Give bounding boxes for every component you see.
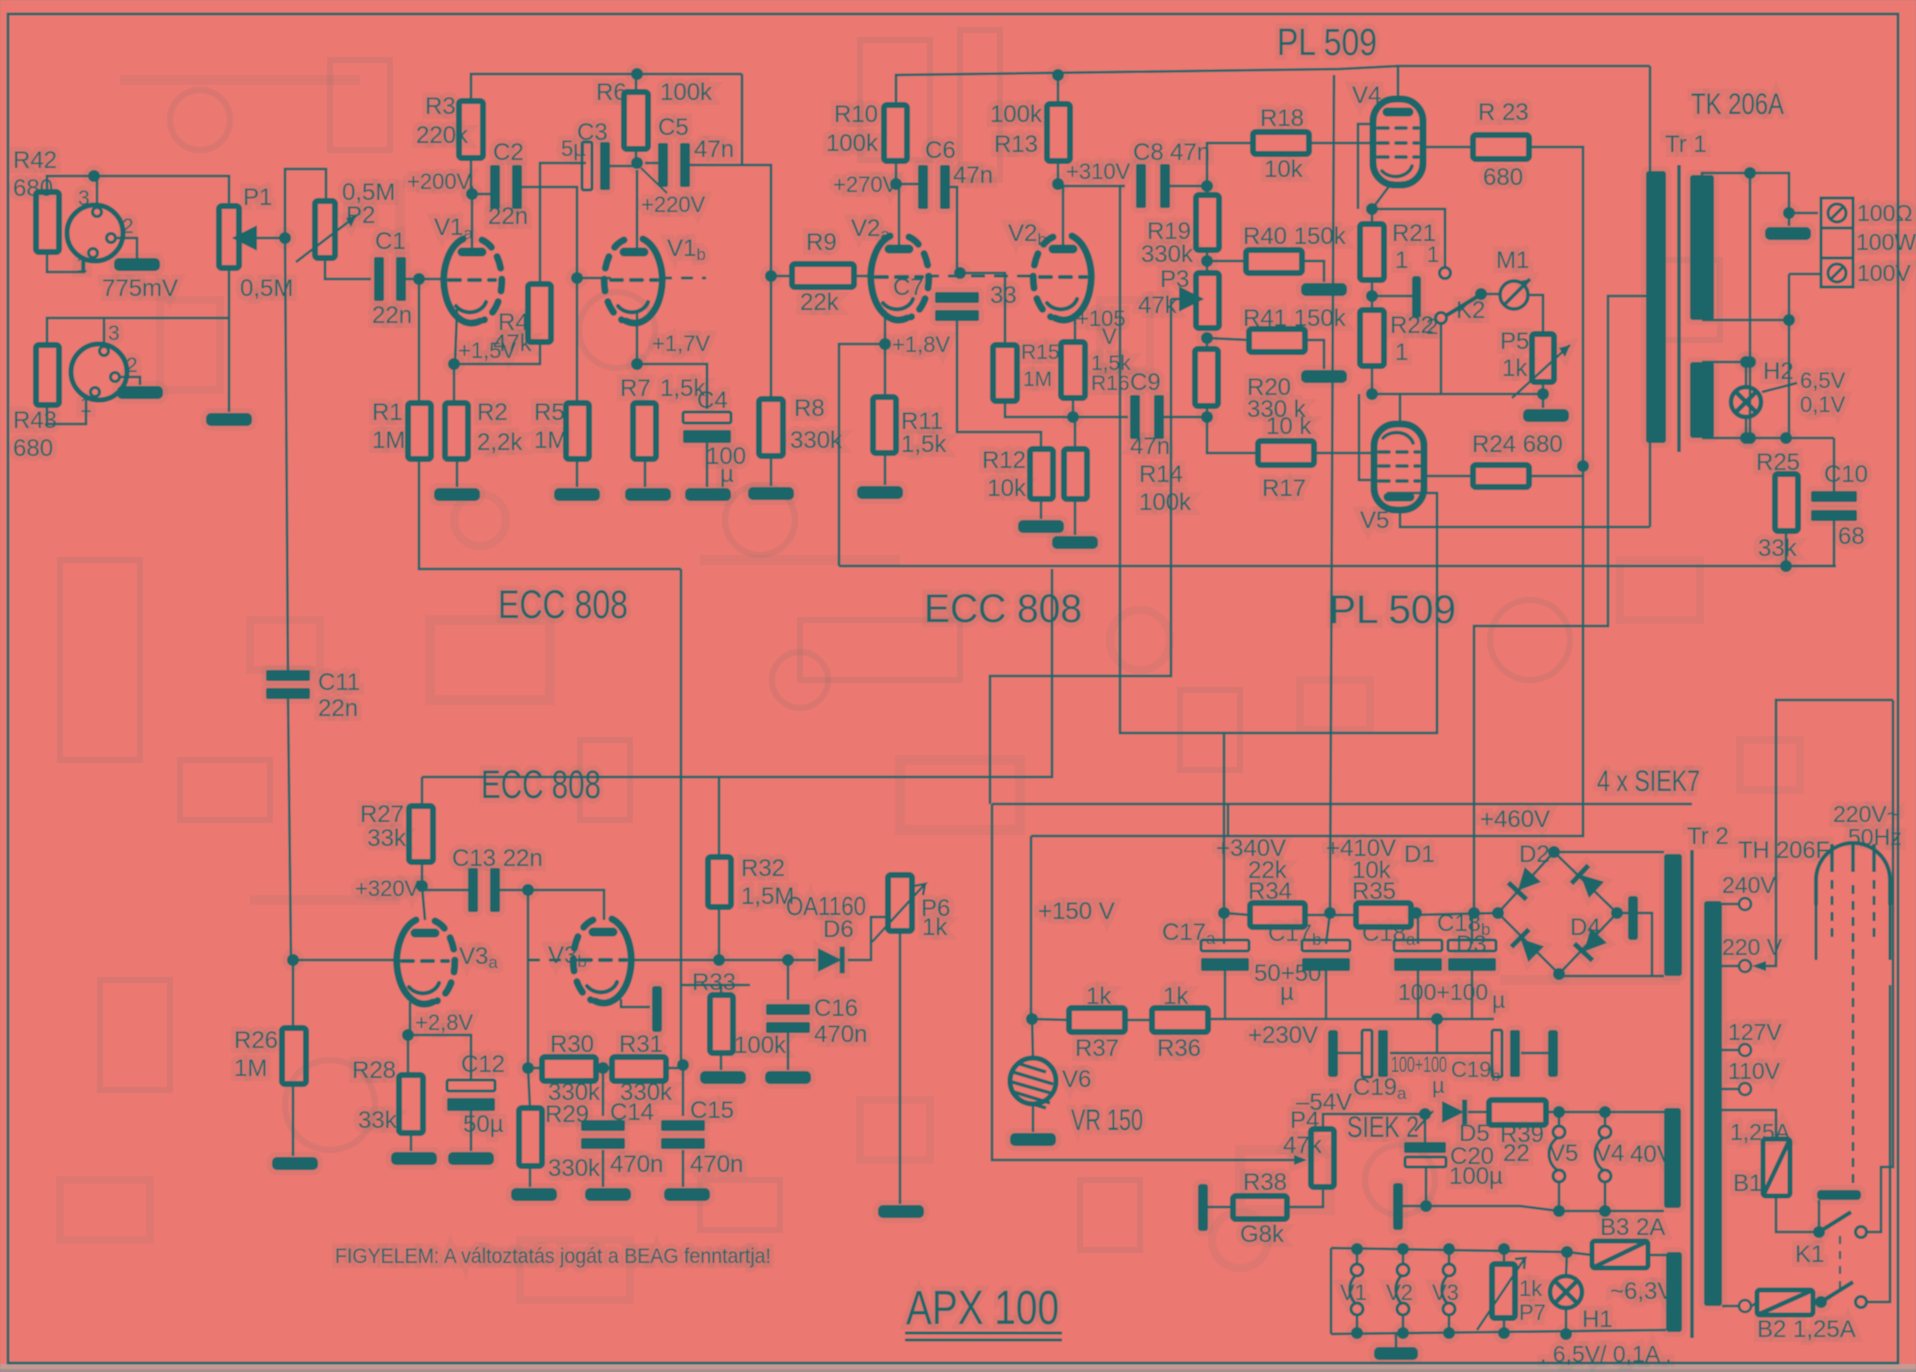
- resistor R22: [1360, 310, 1384, 366]
- junction D6 node: [782, 954, 794, 966]
- svg-text:+310V: +310V: [1066, 159, 1131, 184]
- wire C19 mid riser: [1436, 1019, 1439, 1053]
- ground R5: [554, 488, 600, 501]
- wire XLR1 pin2 to ground: [116, 238, 137, 258]
- wire +230V line: [1208, 1018, 1494, 1021]
- wire C8 node to R19: [1206, 186, 1209, 195]
- svg-text:+2,8V: +2,8V: [415, 1010, 473, 1035]
- junction +460V node: [1468, 907, 1480, 919]
- resistor R1: [408, 403, 431, 459]
- svg-text:µ: µ: [1280, 979, 1294, 1006]
- wire R34-R35 link: [1305, 914, 1356, 917]
- svg-text:+230V: +230V: [1248, 1022, 1318, 1049]
- wire C3 to +220V node: [606, 165, 637, 168]
- wire primary top: [1650, 66, 1656, 171]
- wire R21 bottom: [1371, 280, 1374, 310]
- junction +310V node: [1052, 178, 1064, 190]
- wire H1 bottom: [1565, 1308, 1568, 1336]
- wire C14 bottom to ground: [602, 1150, 605, 1187]
- wire B1 top: [1722, 1110, 1776, 1139]
- wire R41 right to ground: [1305, 340, 1324, 369]
- wire +410V riser: [1330, 75, 1334, 913]
- wire R15 bottom: [1005, 401, 1128, 417]
- junction P7 bottom: [1498, 1327, 1510, 1339]
- resistor R17: [1258, 441, 1314, 465]
- svg-text:22k: 22k: [800, 289, 840, 316]
- resistor R16: [1061, 342, 1085, 398]
- wire R40 right to ground: [1302, 261, 1324, 282]
- wire V4 cathode: [1372, 185, 1390, 209]
- wire C10 top: [1833, 438, 1836, 495]
- junction +340V node: [1218, 907, 1230, 919]
- wire V6 top: [1032, 1019, 1033, 1058]
- resistor R32: [708, 857, 731, 907]
- wire C17b bottom: [1325, 966, 1328, 1019]
- ground R33: [700, 1071, 746, 1084]
- wire P3 wiper line: [990, 299, 1171, 804]
- ground C12: [448, 1152, 494, 1165]
- pentode V5: [1374, 424, 1424, 510]
- svg-text:R2: R2: [477, 399, 508, 426]
- wire C15 riser: [682, 1068, 685, 1116]
- svg-text:D3: D3: [1456, 931, 1487, 958]
- svg-text:C11: C11: [318, 669, 360, 696]
- diode D2: [1570, 864, 1605, 899]
- wire V2a cathode: [884, 310, 887, 344]
- wire -54V node: [1323, 1114, 1425, 1129]
- wire +200V to C2: [472, 187, 492, 194]
- junction C20 D5 node: [1419, 1108, 1431, 1120]
- wire R43 top to shield bus: [47, 318, 229, 345]
- svg-text:V3: V3: [1432, 1280, 1459, 1305]
- svg-text:R31: R31: [619, 1031, 663, 1058]
- potentiometer P5: [1532, 334, 1554, 382]
- heater V2: [1396, 1264, 1409, 1315]
- potentiometer P1: [219, 206, 239, 268]
- resistor R19: [1196, 195, 1219, 250]
- junction heater V3 bottom: [1443, 1327, 1455, 1339]
- svg-text:100k: 100k: [660, 79, 713, 106]
- chassis bar C19 right: [1548, 1030, 1558, 1077]
- svg-text:R43: R43: [13, 407, 57, 434]
- wire R9 left: [771, 275, 792, 278]
- svg-text:R38: R38: [1243, 1169, 1287, 1196]
- svg-text:D2: D2: [1519, 841, 1550, 868]
- resistor R36: [1152, 1008, 1208, 1032]
- resistor R15: [993, 345, 1017, 401]
- svg-text:C6: C6: [925, 137, 956, 164]
- wire V3b cathode: [621, 999, 650, 1007]
- XLR connector input 2: [71, 344, 127, 400]
- junction heater V2 top: [1397, 1243, 1409, 1255]
- P6 variable arrow: [872, 884, 925, 942]
- svg-text:330k: 330k: [620, 1079, 673, 1106]
- junction divider right node: [677, 1059, 689, 1071]
- resistor R34: [1250, 903, 1305, 927]
- wire R10 bottom to +270V: [895, 161, 898, 184]
- wire H2 pointer: [1762, 383, 1797, 392]
- wire C17a riser: [1223, 913, 1226, 944]
- svg-text:50µ: 50µ: [463, 1111, 504, 1138]
- svg-text:0,1V: 0,1V: [1800, 392, 1846, 417]
- resistor R5: [566, 403, 589, 459]
- terminal 110V: [1739, 1083, 1751, 1095]
- svg-text:VR 150: VR 150: [1071, 1104, 1143, 1137]
- wire P2 bottom to C1: [325, 258, 371, 279]
- plug chassis bar: [1817, 1190, 1861, 1200]
- wire R12 bottom to ground: [1040, 499, 1043, 519]
- svg-text:330k: 330k: [790, 427, 843, 454]
- svg-text:+220V: +220V: [641, 192, 706, 217]
- svg-text:68: 68: [1838, 523, 1865, 550]
- svg-text:1k: 1k: [922, 914, 948, 941]
- resistor R38: [1233, 1196, 1287, 1219]
- wire P6 bottom to ground: [899, 931, 902, 1204]
- wire plug bar to K1: [1818, 1200, 1821, 1232]
- junction heater V3 top: [1443, 1243, 1455, 1255]
- heater V3: [1442, 1264, 1455, 1315]
- junction B3 left node: [1561, 1246, 1573, 1258]
- voltage regulator V6 VR150: [1010, 1058, 1056, 1108]
- svg-text:+1,8V: +1,8V: [892, 332, 950, 357]
- junction +2,8V node: [402, 1029, 414, 1041]
- heater V4: [1595, 1126, 1611, 1182]
- wire output common drop: [1749, 173, 1752, 438]
- wire +220V to C5: [645, 162, 661, 165]
- switch K1 upper lever: [1819, 1212, 1851, 1232]
- junction R6 bus node: [631, 68, 643, 80]
- junction +320V node: [416, 880, 428, 892]
- ground R2: [434, 488, 480, 501]
- junction divider mid node: [597, 1062, 609, 1074]
- wire divider left to R29: [528, 1068, 530, 1108]
- wire H2 bottom: [1745, 417, 1748, 438]
- junction heater V4 top: [1599, 1106, 1611, 1118]
- wire R17 right to V5 grid: [1314, 452, 1376, 455]
- junction C8 node: [1201, 180, 1213, 192]
- resistor R29: [519, 1108, 542, 1166]
- resistor R2: [445, 403, 468, 459]
- wire R32 riser: [718, 777, 721, 857]
- svg-text:ECC 808: ECC 808: [498, 583, 628, 627]
- capacitor C17b: [1302, 940, 1350, 971]
- svg-text:B1: B1: [1733, 1170, 1762, 1197]
- capacitor C18b: [1448, 940, 1496, 971]
- junction 100ohm node: [1783, 207, 1795, 219]
- wire heater top lead: [1702, 362, 1746, 387]
- wire C4 bottom to ground: [706, 436, 709, 487]
- wire V4 g2 to R23: [1422, 146, 1473, 149]
- wire C16 riser: [787, 960, 790, 1000]
- wire R22 bottom: [1371, 366, 1374, 394]
- wire +1,8V to NFB rail: [839, 344, 885, 566]
- wire R16 bottom: [1072, 398, 1075, 417]
- svg-text:R12: R12: [982, 447, 1026, 474]
- resistor R35: [1356, 903, 1411, 927]
- junction XLR1 pin3 node: [88, 170, 100, 182]
- wire R28 bottom to ground: [410, 1133, 413, 1151]
- svg-text:2: 2: [122, 215, 134, 238]
- wire V6 node to R37: [1032, 1019, 1069, 1020]
- capacitor C3: [582, 142, 610, 190]
- resistor R39: [1489, 1100, 1546, 1125]
- K1 gang dashed: [1839, 1236, 1841, 1296]
- svg-text:+105: +105: [1076, 306, 1126, 331]
- wire 127V tap: [1722, 1049, 1738, 1052]
- svg-text:2: 2: [126, 354, 138, 377]
- wire R6 bottom: [635, 149, 638, 163]
- wire +1,8V to R11: [884, 344, 887, 397]
- svg-text:22n: 22n: [488, 203, 528, 230]
- resistor R8: [759, 399, 783, 456]
- resistor R13: [1047, 104, 1070, 161]
- wire C1 to V1a grid: [403, 278, 445, 281]
- wire heater loop bottom rail: [1331, 1330, 1666, 1334]
- chassis bar V3b cathode: [652, 986, 662, 1032]
- potentiometer P3: [1196, 273, 1219, 328]
- diode D6: [818, 947, 845, 974]
- wire V3a anode: [422, 886, 425, 920]
- junction ladder bottom node: [1201, 411, 1213, 423]
- potentiometer P7: [1492, 1264, 1515, 1318]
- wire R4 top: [540, 163, 586, 284]
- capacitor C20 electrolytic: [1404, 1142, 1446, 1167]
- wire +340V riser: [1223, 733, 1226, 913]
- svg-text:V4: V4: [1595, 1140, 1624, 1167]
- wire C18a bottom: [1417, 966, 1420, 1019]
- ground R7: [625, 488, 671, 501]
- wire C9 to ladder bottom: [1160, 416, 1208, 419]
- svg-text:100k: 100k: [1139, 489, 1192, 516]
- wire input bus to P1 top: [94, 176, 229, 206]
- wire V5 cathode wire: [1372, 394, 1543, 425]
- grid chain line V2a-V2b: [925, 275, 1038, 278]
- svg-text:APX 100: APX 100: [906, 1282, 1059, 1335]
- resistor R27: [409, 806, 433, 862]
- resistor R23: [1473, 135, 1529, 159]
- wire R9 right to V2a grid: [854, 275, 873, 278]
- svg-text:R13: R13: [994, 131, 1038, 158]
- wire C17a bottom: [1224, 966, 1227, 1019]
- junction P3-R20-R41 node: [1201, 332, 1213, 344]
- capacitor C4: [683, 412, 731, 443]
- wire C16 bottom to ground: [787, 1033, 790, 1070]
- svg-text:P5: P5: [1500, 328, 1529, 355]
- wire R37-R36 link: [1125, 1019, 1152, 1022]
- pentode V4: [1373, 99, 1423, 185]
- mains plug: [1816, 843, 1890, 960]
- ground heater chain: [1374, 1347, 1418, 1360]
- chassis bar heater: [1393, 1183, 1403, 1230]
- wire heater top rail: [1559, 1111, 1664, 1114]
- grid dashes V3b: [528, 959, 578, 962]
- junction NFB node: [1780, 560, 1792, 572]
- svg-text:+1,7V: +1,7V: [652, 331, 710, 356]
- wire R18 right to V4 grid: [1309, 142, 1375, 145]
- P1 wiper arrow: [243, 234, 284, 243]
- svg-text:R3: R3: [425, 93, 456, 120]
- ground C15: [664, 1188, 710, 1201]
- junction R9 left node: [765, 270, 777, 282]
- resistor R20: [1195, 349, 1218, 406]
- svg-text:22n: 22n: [372, 302, 412, 329]
- ground R41: [1301, 370, 1347, 383]
- svg-text:470n: 470n: [690, 1151, 743, 1178]
- junction output bottom node: [1783, 314, 1795, 326]
- triode V1b: [604, 239, 662, 323]
- wire R43 bottom to XLR2 pin1: [47, 397, 86, 424]
- capacitor C9: [1130, 395, 1164, 439]
- svg-text:P3: P3: [1160, 266, 1189, 293]
- junction heater V1 bottom: [1351, 1327, 1363, 1339]
- svg-text:470n: 470n: [814, 1021, 867, 1048]
- svg-text:FIGYELEM: A változtatás jogát: FIGYELEM: A változtatás jogát a BEAG fen…: [335, 1245, 771, 1268]
- wire P4 wiper line: [992, 804, 1303, 1160]
- svg-text:ECC 808: ECC 808: [924, 587, 1082, 631]
- capacitor C12: [447, 1080, 495, 1111]
- svg-text:R14: R14: [1139, 461, 1183, 488]
- junction H2 top: [1740, 356, 1752, 368]
- wire R3 top to HT bus: [471, 74, 742, 101]
- Tr2 primary winding: [1704, 901, 1722, 1306]
- triode V1a: [444, 239, 502, 323]
- wire heater bottom rail: [1520, 1206, 1664, 1211]
- wire V1a cathode down: [455, 309, 457, 364]
- XLR connector input 1: [67, 205, 123, 261]
- wire R23 right to screen line: [1529, 147, 1583, 466]
- wire R32 bottom to V3b grid: [628, 907, 719, 960]
- wire bridge top to Tr2 HV top: [1554, 851, 1664, 854]
- svg-text:100Ω: 100Ω: [1857, 200, 1913, 226]
- svg-text:100k: 100k: [826, 130, 879, 157]
- wire V5 pins: [1558, 1112, 1561, 1211]
- wire B3 right: [1648, 1254, 1666, 1257]
- svg-text:R9: R9: [806, 229, 837, 256]
- resistor R41: [1249, 329, 1305, 352]
- wire R13 top to bus2: [1057, 75, 1060, 104]
- junction V2b grid node: [954, 267, 966, 279]
- junction C20 bottom: [1420, 1200, 1432, 1212]
- resistor R12: [1030, 449, 1053, 499]
- svg-text:TK 206A: TK 206A: [1691, 88, 1784, 121]
- junction R35 right node: [1410, 907, 1422, 919]
- diode D5: [1442, 1100, 1467, 1125]
- wire heater bottom lead: [1702, 437, 1834, 440]
- heater V1: [1350, 1264, 1363, 1315]
- resistor R24: [1473, 465, 1529, 487]
- potentiometer P2: [315, 201, 335, 258]
- wire R27 top bus: [421, 777, 424, 806]
- wire bridge bottom to Tr2 HV bottom: [1559, 974, 1664, 976]
- junction K1 upper pivot: [1813, 1226, 1825, 1238]
- chassis bar R38: [1198, 1184, 1208, 1231]
- ground XLR2 pin2: [117, 386, 163, 399]
- svg-text:R37: R37: [1075, 1035, 1119, 1062]
- svg-text:33: 33: [990, 282, 1017, 309]
- svg-text:470n: 470n: [610, 1151, 663, 1178]
- contact K1 lower: [1856, 1297, 1867, 1308]
- screw terminal 100ohm: [1828, 204, 1846, 222]
- wire R8 bottom to ground: [770, 456, 773, 486]
- wire bridge minus link: [1617, 913, 1652, 976]
- wire R21R22 node to jack: [1372, 295, 1412, 298]
- svg-text:R17: R17: [1262, 475, 1306, 502]
- wire C11 down to V3a grid: [288, 699, 291, 959]
- resistor R40: [1246, 250, 1302, 273]
- svg-text:680: 680: [1483, 164, 1523, 191]
- capacitor C18a: [1394, 940, 1442, 971]
- svg-text:D6: D6: [823, 916, 854, 943]
- capacitor C13: [468, 868, 500, 912]
- svg-text:P1: P1: [243, 184, 272, 211]
- 220V selector arrowhead: [1752, 961, 1766, 971]
- wire contact2 down: [1440, 324, 1443, 394]
- svg-text:3: 3: [78, 187, 90, 210]
- lamp H1: [1550, 1276, 1582, 1308]
- resistor R33: [710, 995, 733, 1053]
- wire R15 top to grid node: [960, 273, 1005, 345]
- wire heater V1 pins: [1356, 1249, 1359, 1333]
- svg-text:680: 680: [13, 435, 53, 462]
- svg-text:µ: µ: [1492, 987, 1505, 1013]
- wire XLR1 pin3 up: [96, 176, 99, 207]
- triode V2a: [871, 236, 929, 320]
- ground output terminal: [1765, 227, 1811, 240]
- junction +1,8V node: [879, 338, 891, 350]
- svg-text:100W: 100W: [1856, 229, 1916, 255]
- wire R35 right to bridge: [1411, 913, 1498, 915]
- ground R29: [511, 1188, 557, 1201]
- junction R13 bus node: [1052, 69, 1064, 81]
- svg-text:22n: 22n: [318, 695, 358, 722]
- svg-text:V2: V2: [1386, 1280, 1413, 1305]
- svg-text:10k: 10k: [987, 475, 1027, 502]
- wire C13 node to V3b anode: [528, 890, 604, 920]
- title underline: [905, 1333, 1062, 1340]
- svg-text:R40 150k: R40 150k: [1243, 223, 1347, 250]
- terminal primary bottom: [1739, 1300, 1751, 1312]
- wire R42 bottom to XLR1 pin1: [47, 252, 84, 272]
- wire +310V to C8: [1058, 184, 1125, 186]
- svg-text:240V: 240V: [1722, 872, 1776, 898]
- svg-text:H2: H2: [1763, 358, 1794, 385]
- Tr2 40V winding: [1664, 1108, 1681, 1208]
- wire y804 riser: [1227, 804, 1230, 836]
- junction +220V node: [631, 157, 643, 169]
- wire R38 left to chassis: [1208, 1206, 1233, 1209]
- svg-text:C10: C10: [1824, 461, 1868, 488]
- wire R20 top: [1206, 338, 1209, 349]
- wire plug neutral dashed: [1852, 950, 1855, 1190]
- triode V3a: [397, 920, 455, 1004]
- junction R21-R22 node: [1366, 290, 1378, 302]
- capacitor C14: [581, 1120, 625, 1149]
- wire V2b cathode: [1074, 319, 1077, 342]
- svg-text:4 x SIEK7: 4 x SIEK7: [1597, 765, 1700, 798]
- ground P5: [1523, 409, 1569, 422]
- wire K1 lower out: [1867, 985, 1890, 1302]
- triode V2b: [1033, 236, 1091, 320]
- svg-text:1: 1: [1395, 247, 1408, 274]
- resistor R28: [399, 1075, 423, 1133]
- resistor R9: [792, 264, 854, 287]
- svg-text:R5: R5: [534, 399, 565, 426]
- capacitor C8: [1136, 164, 1170, 208]
- wire R4 bottom to cathode node: [454, 342, 540, 364]
- capacitor C15: [661, 1120, 705, 1149]
- wire R36 right: [1207, 1019, 1210, 1020]
- svg-text:–54V: –54V: [1296, 1089, 1352, 1116]
